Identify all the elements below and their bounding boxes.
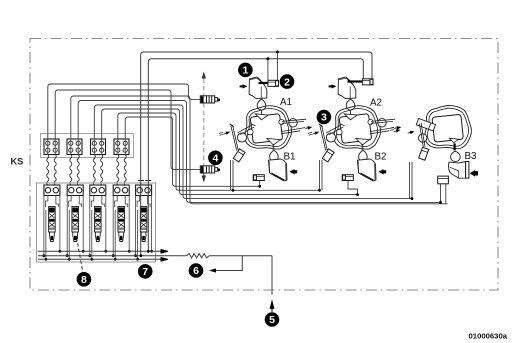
svg-text:B1: B1 xyxy=(284,152,296,163)
svg-text:1: 1 xyxy=(242,65,248,77)
svg-text:6: 6 xyxy=(193,265,199,277)
svg-text:5: 5 xyxy=(269,314,275,326)
svg-text:01000630a: 01000630a xyxy=(469,332,508,341)
svg-text:B3: B3 xyxy=(465,151,478,162)
svg-text:8: 8 xyxy=(81,274,87,286)
svg-text:B2: B2 xyxy=(375,152,387,163)
svg-text:KS: KS xyxy=(11,157,24,167)
svg-text:3: 3 xyxy=(321,112,327,124)
svg-text:2: 2 xyxy=(284,76,290,88)
svg-text:7: 7 xyxy=(142,266,148,278)
svg-text:A2: A2 xyxy=(370,98,382,109)
svg-text:4: 4 xyxy=(212,153,218,165)
svg-text:A1: A1 xyxy=(280,97,292,108)
